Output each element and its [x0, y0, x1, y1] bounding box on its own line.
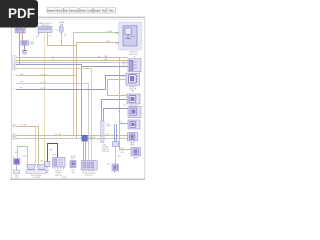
bus label P6: [14, 75, 15, 77]
toolbar tab Search Text: [93, 8, 106, 13]
fuse block A: [11, 26, 29, 33]
svg-text:C2: C2: [97, 140, 99, 142]
svg-text:11: 11: [13, 138, 15, 140]
svg-text:Heated Mirror: Heated Mirror: [47, 10, 62, 13]
bus label P10: [13, 134, 16, 137]
component L: [131, 148, 141, 160]
wire tan bus 9 to connector trap3: [16, 127, 39, 165]
bus label P1: [13, 56, 16, 59]
bus label P3: [13, 62, 16, 65]
wire ground drop: [24, 45, 26, 50]
wire red jumper box4 to relay: [48, 144, 58, 162]
svg-text:LT GRN: LT GRN: [106, 31, 113, 33]
svg-text:6: 6: [14, 75, 15, 77]
toolbar tab Rear Selection: [63, 8, 79, 13]
wire gray bus 7: [16, 84, 89, 161]
svg-text:7: 7: [14, 83, 15, 85]
bus label P2: [13, 60, 16, 63]
component J: [128, 133, 138, 147]
bus label P11: [13, 137, 16, 140]
connector strip under traps: [27, 170, 47, 174]
component box4: [45, 162, 51, 175]
bus label P5: [13, 67, 16, 70]
bus label P7: [14, 83, 15, 85]
wire purple from fuse block A down to bus: [19, 33, 21, 65]
svg-text:PPL: PPL: [20, 88, 23, 90]
component H: [118, 105, 141, 118]
wire purple to component H: [104, 109, 129, 122]
svg-text:8: 8: [14, 89, 15, 91]
svg-text:SWITCH: SWITCH: [102, 151, 109, 153]
wire yellow into trap2: [35, 127, 37, 165]
wire gray bus 11 to mirror J: [16, 138, 128, 140]
wire tan bus 5: [16, 69, 92, 161]
component box7: [106, 164, 118, 173]
connector trap3: [37, 165, 46, 170]
wire green loop from box1 to trap2: [18, 147, 28, 165]
wire tan loop to mirror motors F G: [108, 80, 127, 96]
svg-text:G200: G200: [22, 54, 26, 56]
blue module box: [82, 135, 97, 141]
svg-text:Print: Print: [109, 10, 114, 13]
svg-text:GND: GND: [30, 44, 35, 46]
svg-text:9: 9: [14, 126, 15, 128]
svg-text:A2: A2: [36, 36, 38, 39]
wire purple bus 4: [82, 66, 128, 68]
connector trap2: [27, 165, 36, 170]
diagram frame right border: [144, 17, 146, 179]
diagram frame top border: [11, 17, 145, 19]
bus label P4: [13, 65, 16, 68]
wire tan bus 6: [16, 75, 77, 77]
svg-text:0.5: 0.5: [52, 59, 54, 61]
wire tan bus 10 to mirror J: [16, 135, 128, 137]
mirror select switch: [81, 161, 97, 178]
svg-text:0.5 TAN: 0.5 TAN: [40, 73, 47, 76]
svg-text:FUSE 10A: FUSE 10A: [16, 30, 25, 33]
svg-text:B1: B1: [55, 30, 57, 32]
toolbar tab Heated Mirror: [47, 8, 62, 13]
wire tan from connector to box7: [115, 147, 117, 165]
diagram frame left border: [10, 17, 12, 179]
wire tan bus 1 to mirror L: [16, 58, 131, 150]
wire tan from switch B down and right: [48, 33, 77, 46]
wire purple stub below switch B: [38, 33, 40, 37]
indicator lamp box1: [13, 157, 20, 165]
component G mirror motor: [127, 94, 140, 107]
svg-text:CLUSTER: CLUSTER: [33, 177, 42, 179]
wire red from fuse block A to connector C: [21, 33, 23, 41]
svg-text:C1: C1: [133, 57, 135, 59]
svg-text:2 BLU: 2 BLU: [89, 139, 94, 141]
wire purple pair from blue module to switch: [84, 141, 86, 160]
svg-text:Search Text: Search Text: [93, 10, 106, 13]
svg-text:Rear Selection: Rear Selection: [63, 10, 79, 13]
wire tan bus 2: [16, 60, 128, 62]
component I: [128, 120, 140, 129]
svg-text:1: 1: [14, 57, 15, 59]
svg-text:PPL: PPL: [119, 122, 122, 124]
label block C280: [102, 145, 110, 154]
connector box below blue pair: [113, 142, 119, 147]
svg-text:C2: C2: [118, 111, 120, 113]
RH mirror assembly U1: [119, 22, 142, 56]
svg-text:0.5 PPL: 0.5 PPL: [40, 88, 46, 90]
svg-text:ASSY RH: ASSY RH: [129, 53, 138, 56]
component E mirror switch illumination: [128, 57, 141, 72]
wire gray bus 3: [16, 62, 128, 64]
wire tan to RH mirror: [77, 43, 124, 139]
svg-text:1 BLU: 1 BLU: [120, 152, 125, 154]
connector C: [21, 41, 35, 46]
component F mirror motor RH: [126, 73, 140, 92]
connector C2 tall box: [97, 121, 112, 143]
wire blue pair to connector: [115, 124, 117, 142]
svg-text:LAMP: LAMP: [133, 157, 139, 160]
svg-text:PDF: PDF: [8, 6, 35, 21]
pin ticks at component E inlet: [123, 60, 125, 67]
wire green to RH mirror: [74, 33, 124, 136]
svg-text:A5: A5: [50, 35, 52, 38]
ground G200: [22, 50, 26, 56]
svg-text:G301: G301: [106, 164, 110, 166]
svg-text:SWITCH: SWITCH: [86, 175, 93, 177]
svg-text:5: 5: [14, 68, 15, 70]
toolbar tab Print: [107, 8, 116, 13]
connector under box1: [16, 165, 18, 171]
wire tan from fuse F2 down: [61, 32, 63, 45]
component box5b: [70, 156, 77, 174]
svg-text:8 GRY: 8 GRY: [106, 126, 112, 128]
PDF badge: [0, 0, 38, 28]
wire purple branch to module: [16, 65, 82, 136]
bus label P9: [13, 124, 16, 127]
svg-text:0.5 GRY: 0.5 GRY: [40, 82, 47, 84]
svg-text:Select Color: Select Color: [79, 10, 92, 13]
bus label P8: [14, 89, 15, 91]
wire purple stub to component I: [119, 123, 128, 125]
wire pale yellow from switch B down to connector: [44, 33, 46, 165]
relay K1: [53, 158, 66, 177]
svg-text:0.5 TAN: 0.5 TAN: [20, 123, 27, 126]
svg-text:PPL: PPL: [123, 105, 126, 107]
wire purple bus 8 up to motor F: [16, 76, 126, 90]
fuse F2: [55, 22, 64, 32]
wire label smudges: [20, 56, 111, 136]
defogger switch B: [38, 22, 52, 32]
svg-text:0.5: 0.5: [52, 56, 54, 58]
diagram frame bottom border: [10, 178, 145, 180]
svg-text:0.5 TAN: 0.5 TAN: [55, 133, 62, 136]
toolbar tab Select Color: [79, 8, 92, 13]
wire purple to motor G: [102, 100, 128, 122]
svg-text:ASSY: ASSY: [130, 144, 136, 147]
